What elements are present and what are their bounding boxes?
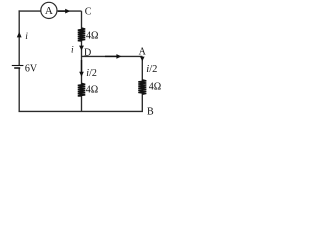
arrow current direction on D-A wire [105, 55, 117, 57]
wire D to A horizontal [82, 55, 143, 57]
wire middle branch C to D to bottom [81, 11, 83, 111]
svg-text:6V: 6V [25, 64, 38, 75]
svg-text:i: i [71, 45, 74, 55]
wire left side lower (battery to bottom wire) [18, 68, 20, 111]
svg-text:A: A [45, 5, 53, 17]
svg-text:4Ω: 4Ω [86, 30, 98, 41]
svg-text:D: D [84, 48, 91, 59]
svg-text:C: C [85, 7, 92, 18]
wire left side upper (corner to battery) [18, 10, 20, 65]
resistor R2 (D-bottom) coil [78, 83, 85, 96]
arrow current i into node D [79, 46, 84, 51]
svg-text:B: B [147, 107, 154, 118]
arrow current i up on left wire [17, 32, 22, 38]
wire bottom (full width) [19, 110, 144, 112]
arrow current i/2 below D [81, 60, 83, 72]
svg-text:4Ω: 4Ω [149, 82, 161, 93]
ammeter A1 circle [41, 2, 57, 18]
wire top-right segment (ammeter to node C corner) [57, 10, 82, 12]
arrow current i/2 below A [140, 57, 145, 62]
resistor R1 (C-D) coil [78, 28, 85, 41]
arrow current direction on top wire [58, 10, 66, 12]
battery V1 long plate [12, 65, 24, 67]
svg-text:A: A [139, 47, 147, 58]
wire right branch A to B [141, 56, 143, 111]
battery V1 short plate [14, 67, 20, 69]
svg-text:4Ω: 4Ω [86, 84, 98, 95]
resistor R3 (A-B) coil [138, 80, 146, 95]
svg-text:i/2: i/2 [146, 64, 157, 75]
svg-text:i: i [25, 32, 28, 42]
wire top-left segment (corner to ammeter) [19, 10, 41, 12]
svg-text:i/2: i/2 [86, 68, 97, 79]
